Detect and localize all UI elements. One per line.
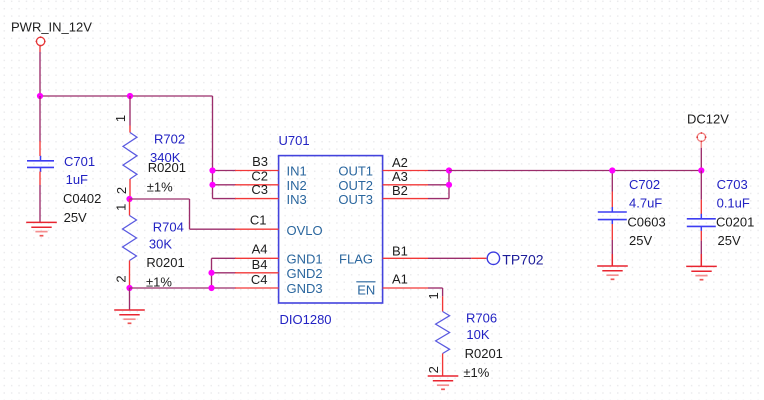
svg-text:1: 1 <box>426 292 441 299</box>
node junction R702/R704 <box>126 196 132 202</box>
wire IN3 <box>213 198 237 200</box>
svg-text:B3: B3 <box>252 154 268 169</box>
capacitor C701 <box>27 141 54 185</box>
svg-text:10K: 10K <box>466 327 489 342</box>
node junction IN2 <box>209 182 215 188</box>
pin FLAG <box>339 252 428 267</box>
svg-text:25V: 25V <box>718 233 741 248</box>
node junction GND2 <box>208 270 214 276</box>
wire <box>39 46 41 96</box>
svg-text:A2: A2 <box>392 155 408 170</box>
pin IN1 <box>235 164 307 179</box>
svg-text:EN: EN <box>357 283 375 298</box>
node junction R704 bottom <box>126 285 132 291</box>
node junction IN1 <box>209 167 215 173</box>
svg-text:OUT3: OUT3 <box>338 192 373 207</box>
resistor R704 <box>123 199 137 288</box>
svg-text:DIO1280: DIO1280 <box>280 312 332 327</box>
svg-text:IN1: IN1 <box>287 164 307 179</box>
svg-text:TP702: TP702 <box>502 251 543 267</box>
ground R704 <box>114 310 145 323</box>
svg-text:C1: C1 <box>250 213 267 228</box>
svg-text:IN3: IN3 <box>287 192 307 207</box>
svg-text:IN2: IN2 <box>287 178 307 193</box>
node junction rail/port <box>37 93 43 99</box>
pin GND2 <box>235 266 323 281</box>
wire OVLO feed <box>130 199 237 229</box>
ground R706 <box>428 376 459 389</box>
wire C701 top <box>39 96 41 142</box>
svg-text:R0201: R0201 <box>148 160 186 175</box>
svg-text:C701: C701 <box>64 154 95 169</box>
pin GND3 <box>235 281 323 296</box>
wire OUT1 to rail <box>428 170 449 172</box>
wire R704 to ground <box>129 288 131 310</box>
svg-text:B1: B1 <box>392 243 408 258</box>
svg-text:GND1: GND1 <box>287 252 323 267</box>
wire IN1 <box>213 170 237 172</box>
svg-text:C3: C3 <box>251 182 268 197</box>
svg-text:25V: 25V <box>64 210 87 225</box>
svg-text:A4: A4 <box>252 242 268 257</box>
port DC12V <box>696 132 706 142</box>
svg-text:B4: B4 <box>252 257 268 272</box>
wire OUT2 <box>428 184 449 186</box>
svg-text:R0201: R0201 <box>146 255 184 270</box>
svg-text:2: 2 <box>114 187 129 194</box>
svg-text:1uF: 1uF <box>66 172 88 187</box>
svg-text:C0201: C0201 <box>716 215 754 230</box>
node junction DC12V/C703 <box>698 167 704 173</box>
test point pin <box>471 257 486 259</box>
pin GND1 <box>235 252 323 267</box>
svg-text:1: 1 <box>114 204 129 211</box>
node junction C702 <box>609 167 615 173</box>
ground C702 <box>597 254 628 279</box>
svg-text:R706: R706 <box>466 311 497 326</box>
op-amp U701 body <box>279 156 383 303</box>
wire OUT3 <box>428 171 449 199</box>
pin OUT3 <box>338 192 428 207</box>
svg-text:OVLO: OVLO <box>287 223 323 238</box>
svg-text:C0603: C0603 <box>627 215 665 230</box>
wire DC12V <box>700 141 702 170</box>
svg-text:OUT1: OUT1 <box>338 164 373 179</box>
ground C703 <box>686 254 717 280</box>
pin IN2 <box>235 178 307 193</box>
pin OUT2 <box>338 178 428 193</box>
wire GND bus <box>130 258 237 288</box>
svg-text:±1%: ±1% <box>147 179 173 194</box>
svg-text:R702: R702 <box>154 132 185 147</box>
svg-text:±1%: ±1% <box>463 365 489 380</box>
node junction OUT2 <box>446 182 452 188</box>
capacitor C702 <box>598 171 627 255</box>
svg-text:GND2: GND2 <box>287 266 323 281</box>
pin IN3 <box>235 192 307 207</box>
wire IN2 <box>213 184 237 186</box>
pin OVLO <box>235 223 323 238</box>
svg-text:C4: C4 <box>251 272 268 287</box>
node junction GND3 <box>208 285 214 291</box>
svg-text:GND3: GND3 <box>287 281 323 296</box>
svg-text:A3: A3 <box>392 169 408 184</box>
resistor R706 <box>436 296 450 376</box>
svg-text:30K: 30K <box>149 237 172 252</box>
pin EN <box>356 282 428 298</box>
test point TP702 <box>487 252 499 264</box>
svg-text:PWR_IN_12V: PWR_IN_12V <box>11 20 92 35</box>
svg-text:U701: U701 <box>279 133 310 148</box>
svg-text:OUT2: OUT2 <box>338 178 373 193</box>
wire FLAG <box>428 257 471 259</box>
svg-text:2: 2 <box>426 366 441 373</box>
svg-text:2: 2 <box>113 275 128 282</box>
node junction rail/R702 <box>127 93 133 99</box>
svg-text:A1: A1 <box>392 271 408 286</box>
svg-text:FLAG: FLAG <box>339 252 373 267</box>
svg-text:R704: R704 <box>153 220 184 235</box>
svg-text:DC12V: DC12V <box>687 112 729 127</box>
capacitor C703 <box>687 171 716 255</box>
pin OUT1 <box>338 164 428 179</box>
port PWR_IN_12V <box>36 36 46 46</box>
svg-text:1: 1 <box>113 115 128 122</box>
svg-text:C2: C2 <box>251 168 268 183</box>
svg-text:R0201: R0201 <box>465 346 503 361</box>
wire EN to R706 <box>428 288 443 296</box>
node junction OUT1 <box>446 167 452 173</box>
svg-text:25V: 25V <box>629 233 652 248</box>
wire bus to IN pins <box>212 96 214 199</box>
wire output rail <box>449 170 701 172</box>
svg-text:4.7uF: 4.7uF <box>629 196 662 211</box>
svg-text:C703: C703 <box>717 177 748 192</box>
resistor R702 <box>123 96 137 199</box>
svg-text:C702: C702 <box>629 177 660 192</box>
wire top rail <box>40 95 213 97</box>
wire C701 bottom <box>39 185 41 222</box>
svg-text:0.1uF: 0.1uF <box>717 196 750 211</box>
svg-text:B2: B2 <box>392 183 408 198</box>
svg-text:C0402: C0402 <box>63 191 101 206</box>
ground C701 <box>26 222 57 235</box>
